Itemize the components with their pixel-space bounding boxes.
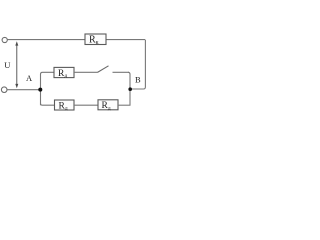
wire between bottom resistors [74, 104, 98, 106]
switch blade (open) [98, 66, 109, 73]
switch fixed wire to corner [113, 71, 130, 73]
wire corner down to node B [128, 72, 130, 89]
terminal top-left [2, 37, 7, 42]
resistor Rd middle [54, 67, 74, 79]
wire node A vertical [41, 72, 55, 105]
wire top rail right [106, 39, 145, 41]
svg-text:B: B [135, 75, 141, 85]
wire from bottom terminal to node A [7, 89, 40, 91]
voltage arrow U (double-headed) [15, 41, 18, 88]
resistor Rd bottom-left [55, 100, 75, 112]
node B [128, 87, 132, 91]
wire right rail down [130, 40, 145, 89]
svg-text:U: U [4, 60, 10, 70]
terminal bottom-left [1, 87, 7, 93]
svg-text:A: A [26, 73, 33, 83]
wire node B down to bottom branch [129, 89, 131, 105]
resistor Rd bottom-right [98, 100, 118, 112]
wire middle to switch [74, 71, 98, 73]
wire bottom branch left [41, 103, 55, 105]
node A [38, 88, 42, 92]
wire top rail left [7, 39, 85, 41]
wire bottom-right to node B vertical [118, 104, 131, 106]
resistor Rk [85, 34, 106, 46]
